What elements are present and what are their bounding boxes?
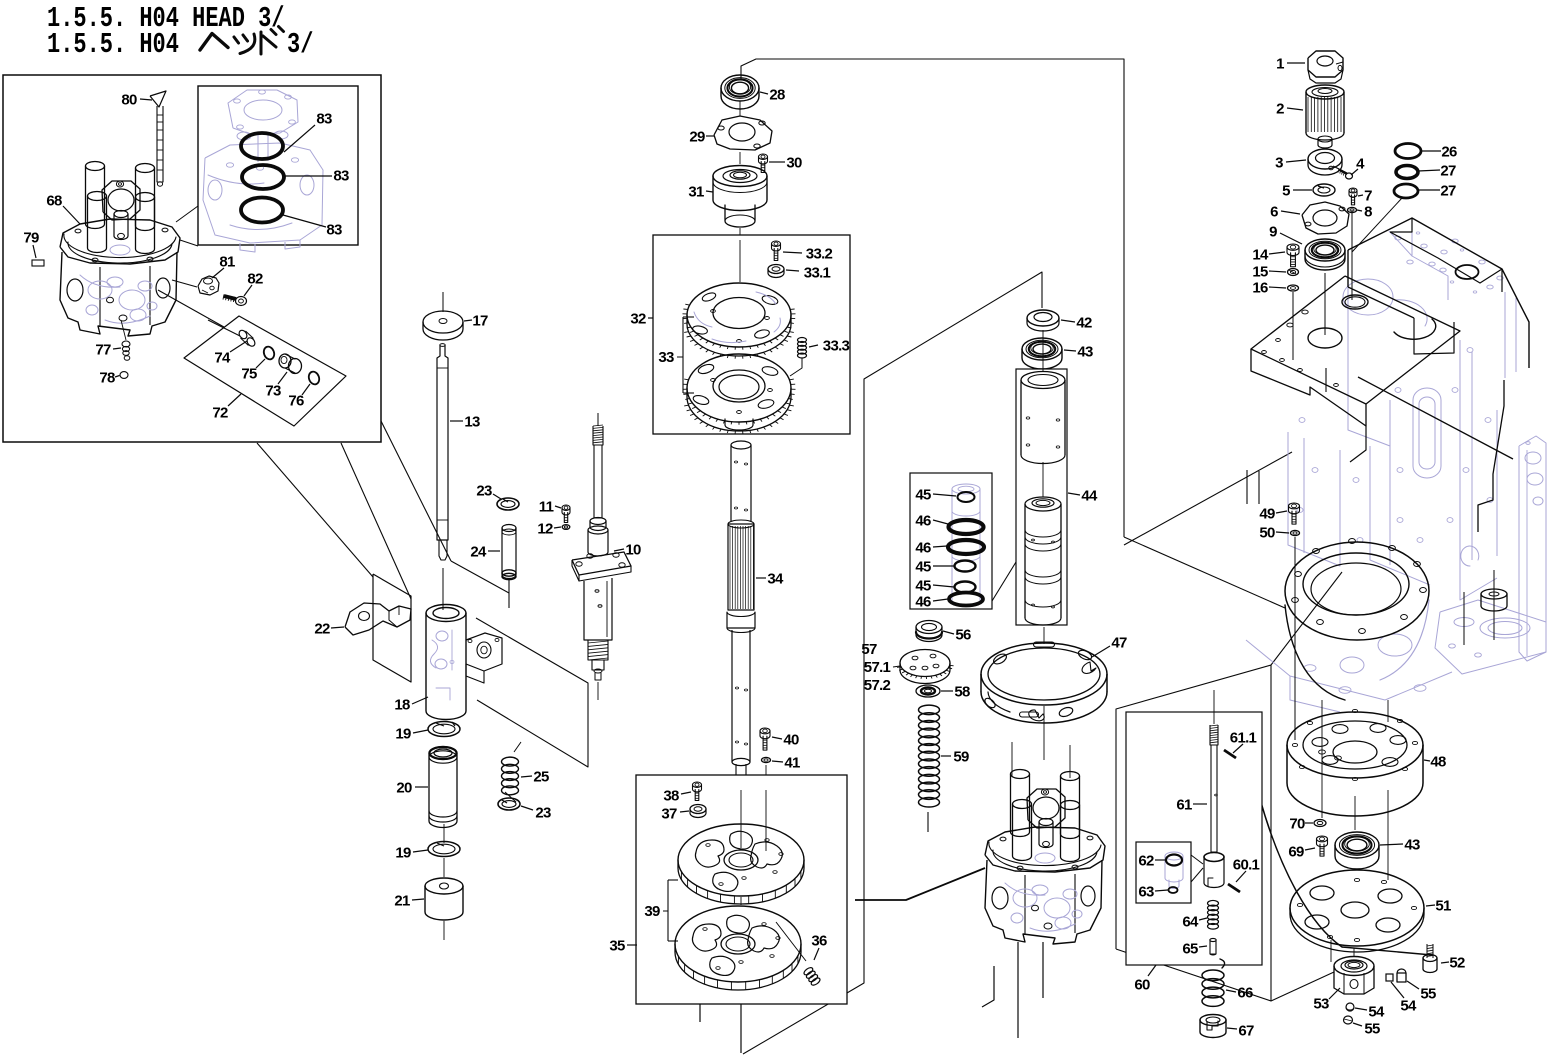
part 55 cap — [1397, 969, 1406, 982]
wire box1 right to shaft plane — [381, 421, 451, 561]
wire 34 axis inside box35 — [740, 790, 742, 848]
label 81 — [212, 254, 235, 279]
part 54 ball — [1346, 1003, 1354, 1011]
part 38 screw — [693, 782, 702, 801]
part 28 bearing — [721, 75, 759, 109]
part 15 nut — [1288, 269, 1299, 276]
label 50 — [1259, 525, 1289, 542]
svg-text:3: 3 — [1275, 155, 1283, 172]
part 50 washer — [1291, 530, 1300, 535]
label 70 — [1289, 816, 1313, 833]
label 17 — [464, 313, 488, 330]
box 44 — [1016, 369, 1067, 625]
label 41 — [772, 755, 800, 772]
label 53 — [1313, 988, 1340, 1013]
svg-text:67: 67 — [1238, 1023, 1254, 1040]
lavender cup 62 — [1165, 852, 1183, 889]
label 79 — [23, 230, 39, 259]
wire plane strip right of 18 — [476, 618, 588, 767]
wire rotors axis — [740, 897, 742, 905]
svg-text:16: 16 — [1252, 280, 1268, 297]
wire 31 axis inside box32 — [739, 240, 741, 282]
label 39 bracket — [644, 880, 678, 941]
box frame head assembly detail — [3, 75, 381, 442]
label 29 — [689, 129, 714, 146]
part 40 screw — [760, 728, 770, 750]
label 11 — [539, 499, 561, 516]
part 81 clamp — [198, 276, 219, 295]
wire 50 axis long — [1294, 537, 1296, 740]
pin 61.1 — [1224, 750, 1236, 758]
part 56 — [916, 621, 942, 642]
svg-text:27: 27 — [1440, 163, 1456, 180]
wire plane top of centre column — [741, 59, 1124, 537]
label 20 — [396, 780, 428, 797]
svg-text:46: 46 — [915, 540, 931, 557]
leader head to inset b — [180, 240, 198, 246]
label 30 — [769, 155, 802, 172]
label 16 — [1252, 280, 1286, 297]
label 62 — [1138, 853, 1165, 870]
box 35 — [636, 775, 847, 1004]
frame slab black — [1247, 198, 1513, 504]
part 6 plate — [1302, 202, 1349, 234]
label 75 — [241, 359, 265, 383]
label 44 — [1068, 488, 1098, 505]
box 45-46 — [910, 473, 992, 609]
label 49 — [1259, 506, 1287, 523]
label 38 — [663, 788, 691, 805]
svg-text:66: 66 — [1237, 985, 1253, 1002]
label 55 b — [1353, 1021, 1380, 1038]
svg-text:81: 81 — [219, 254, 235, 271]
gear plate 33 lower — [683, 354, 796, 434]
label 68 — [46, 193, 80, 225]
o-ring 45 c — [955, 582, 976, 593]
o-ring 46 a — [949, 520, 984, 534]
svg-text:19: 19 — [395, 845, 411, 862]
svg-text:34: 34 — [767, 571, 784, 588]
label 12 — [537, 521, 561, 538]
wire 13 to 18 — [442, 568, 444, 610]
spring 36 — [803, 966, 821, 986]
wire 24 axis — [508, 578, 510, 608]
label 36 — [811, 933, 827, 961]
part 20 cylinder — [429, 747, 457, 828]
frame mount axis b — [1463, 592, 1465, 645]
part 4 screw — [1338, 169, 1353, 180]
svg-text:41: 41 — [784, 755, 800, 772]
ring 19 a — [428, 722, 460, 737]
box 60 — [1126, 712, 1262, 965]
label 19 b — [395, 845, 428, 862]
label 37 — [661, 806, 689, 823]
part 53 nut — [1334, 957, 1374, 995]
svg-text:64: 64 — [1182, 914, 1199, 931]
wire rotor to 36 — [776, 922, 806, 961]
svg-text:72: 72 — [212, 405, 228, 422]
svg-text:23: 23 — [476, 483, 492, 500]
part 24 pin — [502, 525, 516, 580]
label 10 — [614, 542, 641, 559]
svg-text:54: 54 — [1368, 1004, 1385, 1021]
label 3 — [1275, 155, 1306, 172]
wire 10 axis down — [597, 682, 599, 700]
wire 47 axis — [1043, 627, 1045, 644]
svg-text:40: 40 — [783, 732, 799, 749]
part 69 screw — [1317, 836, 1328, 856]
part 21 block — [425, 878, 463, 920]
label 42 — [1061, 315, 1092, 332]
wire 20-21 axis — [443, 824, 445, 843]
svg-text:22: 22 — [314, 621, 330, 638]
leader to 74 inside box72 — [208, 320, 240, 336]
wire below box35 b — [699, 1004, 701, 1022]
inset box 83 — [198, 86, 358, 245]
label 45 c — [915, 578, 954, 595]
svg-text:10: 10 — [625, 542, 641, 559]
frame flange ring black — [1260, 539, 1432, 955]
frame top block black — [1348, 218, 1529, 532]
part 23 ring b — [498, 798, 520, 810]
part 77 screw — [122, 341, 130, 360]
svg-text:37: 37 — [661, 806, 677, 823]
svg-text:58: 58 — [954, 684, 970, 701]
svg-text:69: 69 — [1288, 844, 1304, 861]
box 72 — [184, 316, 346, 426]
label 26 — [1421, 144, 1457, 161]
wire 28-29 — [739, 101, 741, 116]
label 72 — [212, 394, 241, 422]
label 66 — [1226, 985, 1253, 1002]
box 32 — [653, 235, 850, 434]
label 48 — [1424, 754, 1446, 771]
part 79 pin — [32, 260, 44, 266]
svg-text:7: 7 — [1364, 188, 1372, 205]
part 74 bushing — [237, 329, 256, 348]
label 80 — [121, 92, 152, 109]
part 3 clamp — [1308, 149, 1347, 175]
pin 65 — [1210, 938, 1216, 955]
part 12 washer — [562, 525, 570, 530]
leader box62 to rod — [1191, 855, 1203, 864]
label 28 — [760, 87, 785, 104]
part 14 screw — [1287, 244, 1299, 267]
o-ring 46 c — [949, 593, 983, 606]
svg-text:35: 35 — [609, 938, 625, 955]
label 61.1 — [1230, 730, 1257, 754]
svg-text:68: 68 — [46, 193, 62, 210]
label 54 a — [1391, 982, 1417, 1015]
part 51 disc — [1290, 870, 1424, 952]
svg-text:3/: 3/ — [287, 28, 313, 61]
o-ring 62 — [1166, 855, 1182, 866]
part 17 disc — [423, 292, 463, 340]
head assembly 1 hidden detail — [80, 245, 157, 323]
svg-text:13: 13 — [464, 414, 480, 431]
title line 1 — [47, 2, 285, 35]
svg-text:46: 46 — [915, 513, 931, 530]
svg-text:42: 42 — [1076, 315, 1092, 332]
svg-text:43: 43 — [1077, 344, 1093, 361]
svg-text:53: 53 — [1313, 996, 1329, 1013]
label 83 a — [284, 111, 332, 153]
part 43 bearing a — [1022, 338, 1062, 369]
svg-text:32: 32 — [630, 311, 646, 328]
label 21 — [394, 893, 424, 910]
svg-text:83: 83 — [333, 168, 349, 185]
label 33.1 — [786, 265, 831, 282]
label 33 bracket — [658, 317, 694, 393]
pin 60.1 — [1228, 884, 1240, 892]
part 76 ring — [307, 370, 321, 386]
label 23 a — [476, 483, 501, 500]
svg-text:20: 20 — [396, 780, 412, 797]
leader head to 81 — [172, 280, 197, 287]
svg-text:60: 60 — [1134, 977, 1150, 994]
label 65 — [1182, 941, 1207, 958]
o-ring 27 b — [1394, 184, 1418, 198]
svg-text:55: 55 — [1364, 1021, 1380, 1038]
svg-text:45: 45 — [915, 487, 931, 504]
label 32 — [630, 311, 653, 328]
label 55 a — [1407, 981, 1436, 1003]
o-ring 45 a — [958, 492, 975, 502]
label 43 b — [1380, 837, 1420, 854]
label 78 — [99, 370, 119, 387]
svg-text:50: 50 — [1259, 525, 1275, 542]
wire 31-box32 — [739, 228, 741, 282]
label 45 b — [915, 559, 954, 576]
wire plane left of centre-right column — [743, 272, 1042, 1054]
svg-text:80: 80 — [121, 92, 137, 109]
lavender piston in box — [952, 484, 980, 606]
svg-text:56: 56 — [955, 627, 971, 644]
svg-text:51: 51 — [1435, 898, 1451, 915]
plate behind 22 — [373, 574, 411, 682]
o-ring 46 b — [948, 540, 984, 554]
svg-text:63: 63 — [1138, 884, 1154, 901]
part 41 washer — [762, 757, 771, 762]
wire diagonal crossing — [1124, 452, 1292, 545]
svg-text:83: 83 — [326, 222, 342, 239]
wire diagonal to frame flange — [1124, 537, 1285, 608]
part 54 square — [1386, 974, 1393, 981]
leader head to box72 — [158, 290, 240, 336]
gear plate 33 upper — [683, 283, 796, 359]
part 18 cylinder — [426, 605, 502, 720]
wire below head2 b — [982, 966, 994, 1007]
svg-text:77: 77 — [95, 342, 111, 359]
svg-text:5: 5 — [1282, 183, 1290, 200]
label 77 — [95, 342, 121, 359]
label 52 — [1441, 955, 1465, 972]
svg-text:60.1: 60.1 — [1233, 857, 1260, 874]
label 25 — [521, 769, 549, 786]
wire box60 plane to frame flange — [1271, 572, 1342, 665]
wire 29-31 — [739, 152, 741, 164]
label 33.3 — [809, 338, 850, 355]
label 35 — [609, 938, 637, 955]
part 11 screw — [562, 505, 570, 523]
wire 48 axes — [1321, 700, 1323, 818]
ring 47 — [981, 642, 1107, 723]
part 57 disc — [897, 650, 954, 684]
svg-text:83: 83 — [316, 111, 332, 128]
collar 60 bottom — [1204, 853, 1224, 888]
label 15 — [1252, 264, 1286, 281]
svg-text:45: 45 — [915, 559, 931, 576]
svg-text:6: 6 — [1270, 204, 1278, 221]
rotor plate 39 lower — [675, 906, 801, 990]
label 60.1 — [1233, 857, 1260, 883]
svg-text:2: 2 — [1276, 101, 1284, 118]
svg-text:46: 46 — [915, 594, 931, 611]
leader head to inset a — [176, 206, 198, 222]
part 58 — [916, 685, 940, 697]
wire 34 axis down — [740, 780, 742, 850]
o-ring 83 a — [241, 133, 283, 159]
part 9 bearing — [1305, 239, 1345, 270]
label 83 b — [284, 168, 349, 185]
svg-text:57.2: 57.2 — [864, 677, 891, 694]
svg-text:30: 30 — [786, 155, 802, 172]
svg-text:33.3: 33.3 — [823, 338, 850, 355]
label 34 — [756, 571, 784, 588]
frame hidden detail lavender — [1246, 218, 1546, 712]
head assembly 2 black — [985, 770, 1105, 945]
label 58 — [941, 684, 970, 701]
label 5 — [1282, 183, 1312, 200]
o-ring 63 — [1169, 887, 1178, 893]
svg-text:26: 26 — [1441, 144, 1457, 161]
svg-text:39: 39 — [644, 903, 660, 920]
svg-text:49: 49 — [1259, 506, 1275, 523]
wire head2 left bent line — [855, 868, 985, 900]
wire below head2 c — [1042, 942, 1044, 998]
svg-text:9: 9 — [1269, 224, 1277, 241]
spring 25 — [502, 742, 522, 802]
svg-text:11: 11 — [539, 499, 554, 516]
wire 40 axis — [765, 765, 767, 852]
label 45 a — [915, 487, 956, 504]
wire box1 to plate 22 — [257, 443, 373, 577]
label 69 — [1288, 844, 1315, 861]
part 1 hex cap — [1308, 51, 1343, 83]
part 30 screw — [759, 154, 768, 173]
svg-text:33: 33 — [658, 349, 674, 366]
label 54 b — [1355, 1004, 1385, 1021]
part 23 ring a — [497, 498, 519, 510]
part 49 screw — [1289, 503, 1300, 524]
labels 57 group — [861, 641, 900, 694]
part 31 pulley — [713, 166, 767, 228]
o-ring 83 c — [241, 198, 283, 223]
wire 59 tail — [927, 812, 929, 832]
label 4 — [1351, 156, 1365, 176]
label 46 b — [915, 540, 947, 557]
part 33.1 nut — [768, 265, 784, 278]
svg-text:75: 75 — [241, 366, 257, 383]
title line 2 — [47, 27, 313, 61]
head assembly 1 black — [60, 162, 180, 337]
wire 51-53 axes — [1330, 940, 1332, 962]
label 1 — [1276, 56, 1305, 73]
wire below head2 a — [1017, 942, 1019, 1038]
label 73 — [265, 372, 287, 400]
wire box60 plane to nut 53 — [1271, 972, 1334, 1001]
svg-text:33.1: 33.1 — [804, 265, 831, 282]
part 82 bolt — [223, 294, 247, 305]
o-ring 45 b — [955, 561, 976, 572]
svg-text:24: 24 — [470, 544, 487, 561]
svg-text:36: 36 — [811, 933, 827, 950]
svg-text:15: 15 — [1252, 264, 1268, 281]
part 8 washer — [1348, 207, 1357, 212]
part 33.2 screw — [772, 241, 781, 261]
part 5 ring — [1313, 184, 1335, 196]
part 78 ball — [120, 372, 128, 379]
label 24 — [470, 544, 500, 561]
svg-text:74: 74 — [214, 350, 231, 367]
part 16 washer — [1288, 285, 1299, 291]
label 47 — [1092, 635, 1127, 658]
o-ring 83 b — [242, 165, 284, 189]
label 2 — [1276, 101, 1303, 118]
label 19 a — [395, 726, 428, 743]
box 62-63 — [1136, 842, 1191, 903]
head assembly 2 hidden — [1005, 853, 1082, 931]
label 9 — [1269, 224, 1302, 245]
part 48 cylinder — [1287, 709, 1423, 816]
cup 67 — [1200, 1015, 1226, 1038]
svg-text:33.2: 33.2 — [806, 246, 833, 263]
svg-text:18: 18 — [394, 697, 410, 714]
label 13 — [450, 414, 480, 431]
svg-text:28: 28 — [769, 87, 785, 104]
part 29 plate — [714, 116, 772, 150]
svg-text:70: 70 — [1289, 816, 1305, 833]
part 22 lever — [345, 603, 411, 635]
svg-text:17: 17 — [472, 313, 488, 330]
svg-text:48: 48 — [1430, 754, 1446, 771]
part 2 filter — [1306, 85, 1344, 148]
label 61 — [1176, 797, 1207, 814]
label 83 c — [283, 215, 342, 239]
label 74 — [214, 341, 247, 367]
part 18 hidden — [430, 630, 454, 700]
svg-text:52: 52 — [1449, 955, 1465, 972]
label 31 — [688, 184, 713, 201]
spring 64 — [1208, 900, 1219, 929]
label 23 b — [521, 805, 551, 822]
svg-text:62: 62 — [1138, 853, 1154, 870]
label 51 — [1426, 898, 1451, 915]
svg-text:14: 14 — [1252, 247, 1269, 264]
spring 59 — [919, 705, 940, 807]
svg-text:59: 59 — [953, 749, 969, 766]
rod 61 — [1210, 690, 1218, 852]
part 80 pin — [150, 91, 166, 186]
svg-text:45: 45 — [915, 578, 931, 595]
svg-text:57.1: 57.1 — [864, 659, 891, 676]
inset head lavender — [203, 90, 323, 252]
svg-text:25: 25 — [533, 769, 549, 786]
wire below box35 a — [740, 1004, 742, 1053]
svg-text:8: 8 — [1364, 204, 1372, 221]
svg-text:54: 54 — [1400, 998, 1417, 1015]
spring 66 — [1202, 959, 1225, 1006]
